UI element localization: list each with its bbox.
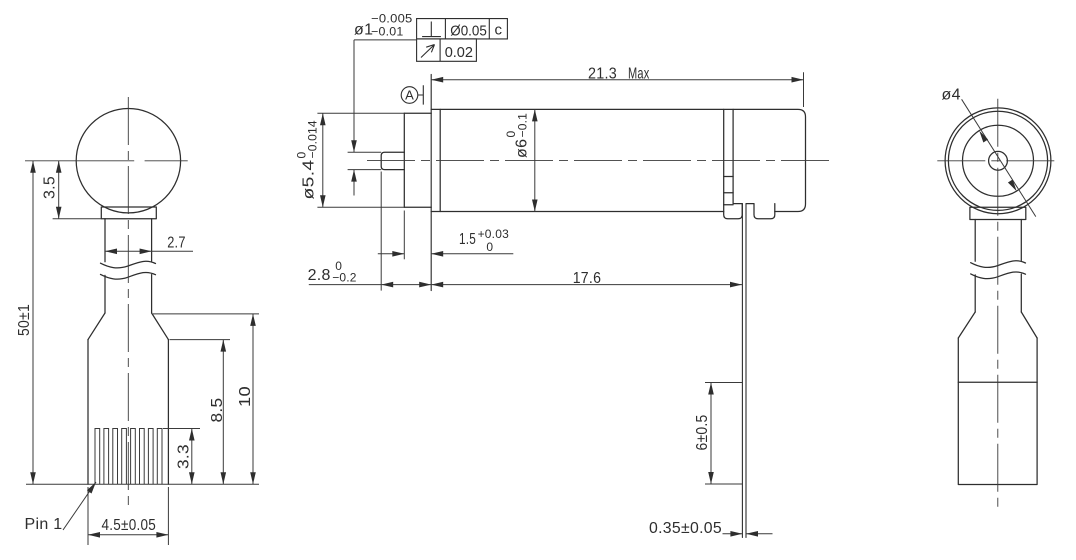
svg-text:−0.014: −0.014 bbox=[306, 120, 320, 158]
tab 2 bbox=[746, 204, 775, 219]
o5.4 ext lines bbox=[317, 113, 404, 207]
arrows left view bbox=[30, 161, 256, 538]
1.5 ext line bbox=[403, 211, 405, 260]
body left edge (also ext up to datum) bbox=[430, 75, 432, 291]
svg-text:1.5: 1.5 bbox=[459, 231, 476, 248]
divider line in body bbox=[958, 381, 1037, 383]
ext line collar bottom left bbox=[53, 218, 102, 220]
svg-text:A: A bbox=[405, 88, 414, 103]
dimension lines left view bbox=[26, 161, 259, 545]
step ring left bbox=[439, 109, 441, 211]
svg-text:0.35±0.05: 0.35±0.05 bbox=[649, 520, 722, 537]
ext line for 10 bbox=[153, 313, 259, 315]
shaft o1 bbox=[381, 152, 404, 169]
dim 2.7 line bbox=[105, 250, 193, 252]
21.3 right ext bbox=[803, 72, 805, 107]
GD&T frames bbox=[401, 19, 507, 105]
svg-text:2.8: 2.8 bbox=[308, 267, 331, 284]
svg-text:8.5: 8.5 bbox=[209, 398, 226, 423]
ball lens circle bbox=[76, 109, 180, 213]
ring dividers bbox=[724, 177, 733, 205]
svg-text:+0.03: +0.03 bbox=[478, 227, 509, 241]
datum A circle bbox=[401, 87, 418, 104]
datum connector + tick bbox=[418, 85, 424, 104]
svg-text:Ø0.05: Ø0.05 bbox=[450, 23, 487, 40]
tube edges upper bbox=[975, 220, 1021, 262]
centerlines right view bbox=[937, 99, 1058, 510]
tube edges lower bbox=[975, 274, 1021, 312]
dim 8.5 line bbox=[222, 340, 224, 485]
dim 4.5 line bbox=[88, 534, 168, 536]
flange bottom edge bbox=[404, 206, 431, 208]
break wave lower bbox=[101, 272, 156, 279]
shaft ext lines bbox=[348, 152, 382, 169]
o6 dim line bbox=[534, 109, 536, 211]
2.8 / 17.6 dim line bbox=[309, 284, 742, 286]
0.35 dim segments bbox=[723, 533, 773, 535]
o4 leader bbox=[962, 99, 1036, 216]
tube left edge upper bbox=[104, 219, 106, 262]
6+-0.5 ext lines bbox=[705, 383, 742, 485]
tube right edge lower bbox=[151, 275, 153, 313]
dim 50+-1 line bbox=[32, 161, 34, 485]
svg-text:50±1: 50±1 bbox=[16, 304, 33, 336]
texts middle view bbox=[295, 11, 723, 537]
break wave lower right view bbox=[971, 272, 1026, 279]
svg-text:3.3: 3.3 bbox=[176, 444, 193, 469]
o4 circle bbox=[963, 125, 1034, 196]
svg-text:10: 10 bbox=[237, 386, 254, 407]
baseline bottom bbox=[26, 483, 259, 485]
horizontal centerline / extension at ball center bbox=[25, 160, 188, 162]
texts left view bbox=[16, 176, 254, 534]
svg-text:ø6: ø6 bbox=[514, 139, 531, 158]
svg-text:4.5±0.05: 4.5±0.05 bbox=[102, 517, 157, 534]
perpendicularity symbol bbox=[422, 22, 441, 37]
taper right bbox=[152, 313, 169, 340]
svg-text:3.5: 3.5 bbox=[42, 176, 59, 199]
outer circle bbox=[945, 108, 1051, 214]
21.3 dim line bbox=[431, 79, 803, 81]
tube right edge upper bbox=[151, 219, 153, 261]
svg-text:−0.01: −0.01 bbox=[371, 25, 404, 39]
dim 10 line bbox=[252, 314, 254, 484]
arrows middle view bbox=[320, 77, 804, 537]
flange o5.4 left edge bbox=[403, 113, 405, 207]
dims middle view bbox=[309, 40, 804, 534]
svg-text:0.02: 0.02 bbox=[445, 44, 473, 61]
ring right end lines bbox=[724, 109, 733, 204]
tab 1 bbox=[724, 204, 743, 219]
ext line for 3.3 bbox=[163, 428, 200, 430]
body right view bbox=[958, 338, 1037, 485]
svg-text:Pin 1: Pin 1 bbox=[25, 516, 63, 533]
FPC ribbon bbox=[742, 204, 746, 538]
body bottom edge bbox=[431, 211, 724, 213]
second circle bbox=[948, 111, 1047, 210]
centerline middle view bbox=[367, 160, 833, 162]
svg-text:0: 0 bbox=[486, 240, 493, 254]
FCF row 1 box bbox=[417, 19, 508, 39]
svg-text:ø5.4: ø5.4 bbox=[301, 160, 318, 200]
taper right view bbox=[958, 312, 1037, 338]
body right edge bbox=[167, 340, 169, 485]
o5.4 dim line bbox=[322, 113, 324, 207]
centerline vertical left view bbox=[25, 97, 188, 506]
2.8 ext line bbox=[380, 172, 382, 291]
FCF row 2 box bbox=[417, 39, 477, 61]
svg-text:−0.005: −0.005 bbox=[371, 11, 413, 25]
1.5 dim segments bbox=[378, 253, 514, 255]
svg-text:−0.2: −0.2 bbox=[332, 270, 357, 284]
pin1 leader bbox=[63, 482, 96, 530]
svg-text:ø4: ø4 bbox=[942, 87, 961, 104]
svg-text:2.7: 2.7 bbox=[167, 235, 186, 252]
runout arrow symbol bbox=[421, 45, 435, 58]
body left edge bbox=[87, 340, 89, 485]
flange top edge bbox=[404, 112, 431, 114]
break wave upper bbox=[101, 261, 156, 268]
dim 3.3 line bbox=[191, 429, 193, 485]
body top edge + cap with rounded right bbox=[431, 109, 805, 211]
ext lines for 4.5 bbox=[88, 487, 168, 545]
collar below ball bbox=[101, 207, 156, 219]
svg-text:c: c bbox=[495, 21, 503, 38]
pins comb bbox=[95, 429, 162, 485]
svg-text:−0.1: −0.1 bbox=[516, 113, 530, 138]
tube left edge lower bbox=[104, 275, 106, 313]
taper left bbox=[88, 313, 105, 340]
collar right view bbox=[970, 207, 1026, 219]
6+-0.5 dim line bbox=[710, 383, 712, 485]
center aperture circle bbox=[989, 151, 1008, 170]
break wave upper right view bbox=[971, 261, 1026, 268]
dim 3.5 line bbox=[58, 161, 60, 219]
svg-text:6±0.5: 6±0.5 bbox=[694, 415, 711, 451]
svg-text:17.6: 17.6 bbox=[573, 270, 602, 287]
ext line for 8.5 bbox=[170, 339, 231, 341]
o1 leader bbox=[354, 40, 417, 196]
